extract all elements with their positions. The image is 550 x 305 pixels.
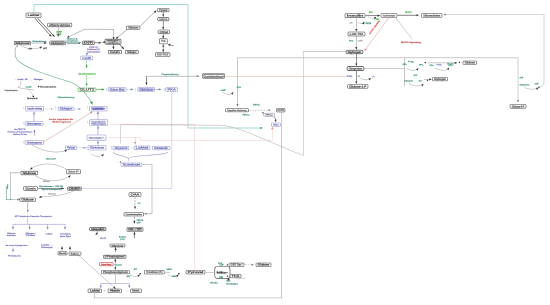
svg-text:TCA: TCA [161,40,166,43]
svg-text:Muskel: Muskel [60,253,66,255]
svg-text:Pyruvat: Pyruvat [188,271,204,274]
svg-text:UDP: UDP [220,264,225,266]
svg-text:Glyzerinkinase + G3P-DH: Glyzerinkinase + G3P-DH [39,185,63,188]
svg-text:G6Pase: G6Pase [43,181,50,183]
svg-text:Epinephrin: Epinephrin [27,97,38,100]
svg-text:PKA: PKA [237,86,242,89]
svg-text:G6P: G6P [278,110,284,112]
svg-text:Glukagon: Glukagon [127,51,137,54]
svg-text:[: [ [111,146,112,150]
svg-text:Insulin: Insulin [18,79,25,81]
svg-text:GLUT2: GLUT2 [100,238,106,240]
svg-text:NADH: NADH [167,268,173,271]
svg-text:Insulin supprimiert die: Insulin supprimiert die [49,118,74,121]
svg-text:PYGL: PYGL [437,65,443,67]
svg-text:GTP: GTP [137,222,142,224]
svg-text:TCA-Zwisch.: TCA-Zwisch. [26,234,36,237]
svg-text:IRS: IRS [369,12,373,14]
svg-text:TCA: TCA [232,275,240,278]
svg-text:Glukose: Glukose [258,264,270,267]
svg-text:G6P: G6P [84,42,93,45]
svg-text:[: [ [55,105,56,109]
svg-text:Glutamin: Glutamin [154,147,169,150]
svg-text:SREBP: SREBP [57,34,62,36]
svg-text:Glukoseabgabe: Glukoseabgabe [91,124,107,126]
svg-text:Glukose-6-P: Glukose-6-P [46,158,57,160]
svg-text:Insulin: Insulin [110,51,121,54]
svg-text:Glukose: Glukose [23,172,37,175]
svg-text:Glykolyse: Glykolyse [128,27,139,30]
svg-text:Regulation Glukoneog.: Regulation Glukoneog. [227,109,247,112]
svg-text:Norepinephrin: Norepinephrin [40,86,57,89]
svg-text:Laktat: Laktat [90,290,101,293]
svg-text:ATP: ATP [520,77,524,80]
svg-text:Glukoneogenese: Glukoneogenese [27,122,42,125]
svg-text:↓: ↓ [23,231,24,234]
svg-text:Insulin: Insulin [347,15,365,18]
svg-text:Enolase: Enolase [119,236,127,238]
svg-text:Glukagon: Glukagon [60,108,73,111]
svg-text:Citrat: Citrat [160,31,169,34]
svg-text:effiziente Glykolyse: effiziente Glykolyse [49,24,70,27]
svg-text:↑: ↑ [98,237,99,240]
svg-text:Czk: Czk [103,257,106,259]
svg-text:Substrate: Substrate [123,164,142,167]
svg-text:PKA: PKA [349,40,354,43]
svg-text:Glukose-6-P: Glukose-6-P [51,42,64,45]
svg-text:OAA → PEP: OAA → PEP [129,228,142,231]
svg-text:Phosphoenolpyruvat: Phosphoenolpyruvat [103,271,128,274]
svg-text:ATP-bindende-Kassette-Transpor: ATP-bindende-Kassette-Transporter [15,215,52,218]
svg-text:[: [ [87,120,88,124]
svg-text:Pyruvatkinase (PK): Pyruvatkinase (PK) [146,271,163,274]
svg-text:Glyzerol: Glyzerol [115,147,128,150]
svg-text:GLUT2: GLUT2 [405,12,413,14]
svg-text:Glukoseaufnahme: Glukoseaufnahme [423,14,441,17]
svg-text:Glukagon: Glukagon [34,79,44,81]
svg-text:Glykogenolyse: Glykogenolyse [349,67,363,70]
svg-text:PYGL: PYGL [408,61,415,63]
svg-text:(Insulinrezeptor): (Insulinrezeptor) [79,72,96,75]
svg-text:Acetyl-CoA: Acetyl-CoA [159,18,167,21]
svg-text:Laktat: Laktat [136,147,149,150]
svg-text:leberspezifisch: leberspezifisch [91,228,105,231]
svg-text:[: [ [106,88,107,92]
svg-text:Glyzerin: Glyzerin [25,187,36,190]
svg-text:Glukosefreisetzung: Glukosefreisetzung [58,96,75,99]
svg-text:Alanin-Zyklus: Alanin-Zyklus [60,235,71,238]
svg-text:Phosphorylierung: Phosphorylierung [162,73,180,76]
svg-text:G6Pase: G6Pase [273,125,279,127]
svg-text:PYGL: PYGL [347,76,353,78]
svg-text:Glukose-6-P: Glukose-6-P [68,171,79,174]
svg-text:GLUT2: GLUT2 [447,64,455,66]
svg-text:PEPCK: PEPCK [253,104,260,106]
svg-text:Glukoneogenese: Glukoneogenese [52,122,72,124]
svg-text:Glyzerat: Glyzerat [112,244,124,247]
svg-text:Pyruvatcarboxylase: Pyruvatcarboxylase [126,213,143,216]
svg-text:Glykogenin: Glykogenin [405,81,414,83]
svg-text:Glykogen: Glykogen [434,78,446,81]
svg-text:Erythroz.: Erythroz. [71,252,80,255]
svg-text:↑: ↑ [136,150,137,153]
svg-text:Hepatozyten: Hepatozyten [5,89,19,92]
svg-text:2-Phosphoglyzerat: 2-Phosphoglyzerat [105,256,124,259]
svg-text:F-2,6-BP: F-2,6-BP [83,57,92,60]
svg-text:FBPase: FBPase [243,114,251,116]
svg-text:[: [ [23,106,24,110]
svg-text:PDH-E1: PDH-E1 [210,282,218,284]
svg-text:[: [ [135,87,136,91]
svg-text:GLUT2: GLUT2 [80,89,96,92]
svg-text:NADH / FADH2: NADH / FADH2 [157,54,169,57]
svg-text:Fettsäuren: Fettsäuren [8,255,21,258]
svg-text:Laktat: Laktat [28,14,40,17]
svg-text:Glukoseabgabe ↑↑: Glukoseabgabe ↑↑ [89,136,105,139]
svg-text:DHAP: DHAP [69,188,80,191]
svg-text:Pyruvat: Pyruvat [67,147,75,150]
svg-text:G6Pase: G6Pase [265,115,273,117]
svg-text:Glukoneogen.: Glukoneogen. [41,247,53,249]
svg-text:Glukose-1-P: Glukose-1-P [349,85,366,88]
svg-text:Citratzyklus: Citratzyklus [226,283,238,286]
svg-text:Insulin niedrig: Insulin niedrig [27,108,42,111]
svg-text:Mito-: Mito- [217,271,229,274]
svg-text:aufnahme: aufnahme [7,235,16,237]
svg-text:Insulin: Insulin [26,87,32,89]
svg-text:ATP: ATP [414,74,419,77]
svg-text:Glykolyse: Glykolyse [140,88,154,91]
svg-text:Pyruvat: Pyruvat [159,9,167,12]
svg-text:Akt: Akt [350,21,353,24]
svg-text:Enolase-Mangel: Enolase-Mangel [101,264,111,266]
svg-text:[: [ [87,105,88,109]
svg-text:OAA: OAA [131,194,140,197]
svg-text:↓: ↓ [5,252,6,255]
svg-text:GSD Typ I: GSD Typ I [231,265,243,267]
svg-text:bisphosphatase: bisphosphatase [87,50,101,53]
svg-text:PKA: PKA [167,89,176,92]
svg-text:Glukose: Glukose [465,62,476,65]
svg-text:Alanin: Alanin [110,290,121,293]
svg-text:cAMP: cAMP [221,89,227,92]
svg-text:p-Akt / PKA: p-Akt / PKA [350,33,364,36]
svg-text:Glukose-6-Pase: Glukose-6-Pase [13,134,28,136]
svg-text:Glukokinase: Glukokinase [520,85,531,87]
svg-text:Glykogen: Glykogen [348,51,362,54]
svg-text:2-PG: 2-PG [120,239,125,241]
svg-text:ADP: ADP [535,83,540,86]
svg-text:Glukose-6-P: Glukose-6-P [512,105,525,108]
svg-text:de-novo-Lipogenese: de-novo-Lipogenese [6,245,29,247]
svg-text:Insulinrezeptor: Insulinrezeptor [383,14,396,17]
svg-text:PDE3B: PDE3B [365,23,372,25]
svg-text:Glykolyse: Glykolyse [48,194,56,196]
svg-text:↑: ↑ [261,124,262,127]
svg-text:Harnst.: Harnst. [132,290,140,293]
svg-text:phosphatase: phosphatase [67,40,79,43]
svg-text:Transkriptionsfaktoren: Transkriptionsfaktoren [204,75,224,78]
svg-text:Laktat: Laktat [46,232,53,235]
svg-text:Glukose (Blut): Glukose (Blut) [110,88,125,91]
svg-text:Enolase: Enolase [115,264,123,266]
svg-text:cAMP: cAMP [358,40,364,43]
svg-text:MAPK-Signalweg: MAPK-Signalweg [401,41,422,44]
svg-text:Glukose: Glukose [16,42,30,45]
svg-text:Glykolyse: Glykolyse [90,147,105,150]
svg-text:synthase: synthase [108,42,120,45]
svg-text:→: → [126,289,128,292]
svg-text:Glukoneogenese: Glukoneogenese [27,141,43,144]
svg-text:Glukose: Glukose [21,199,34,202]
